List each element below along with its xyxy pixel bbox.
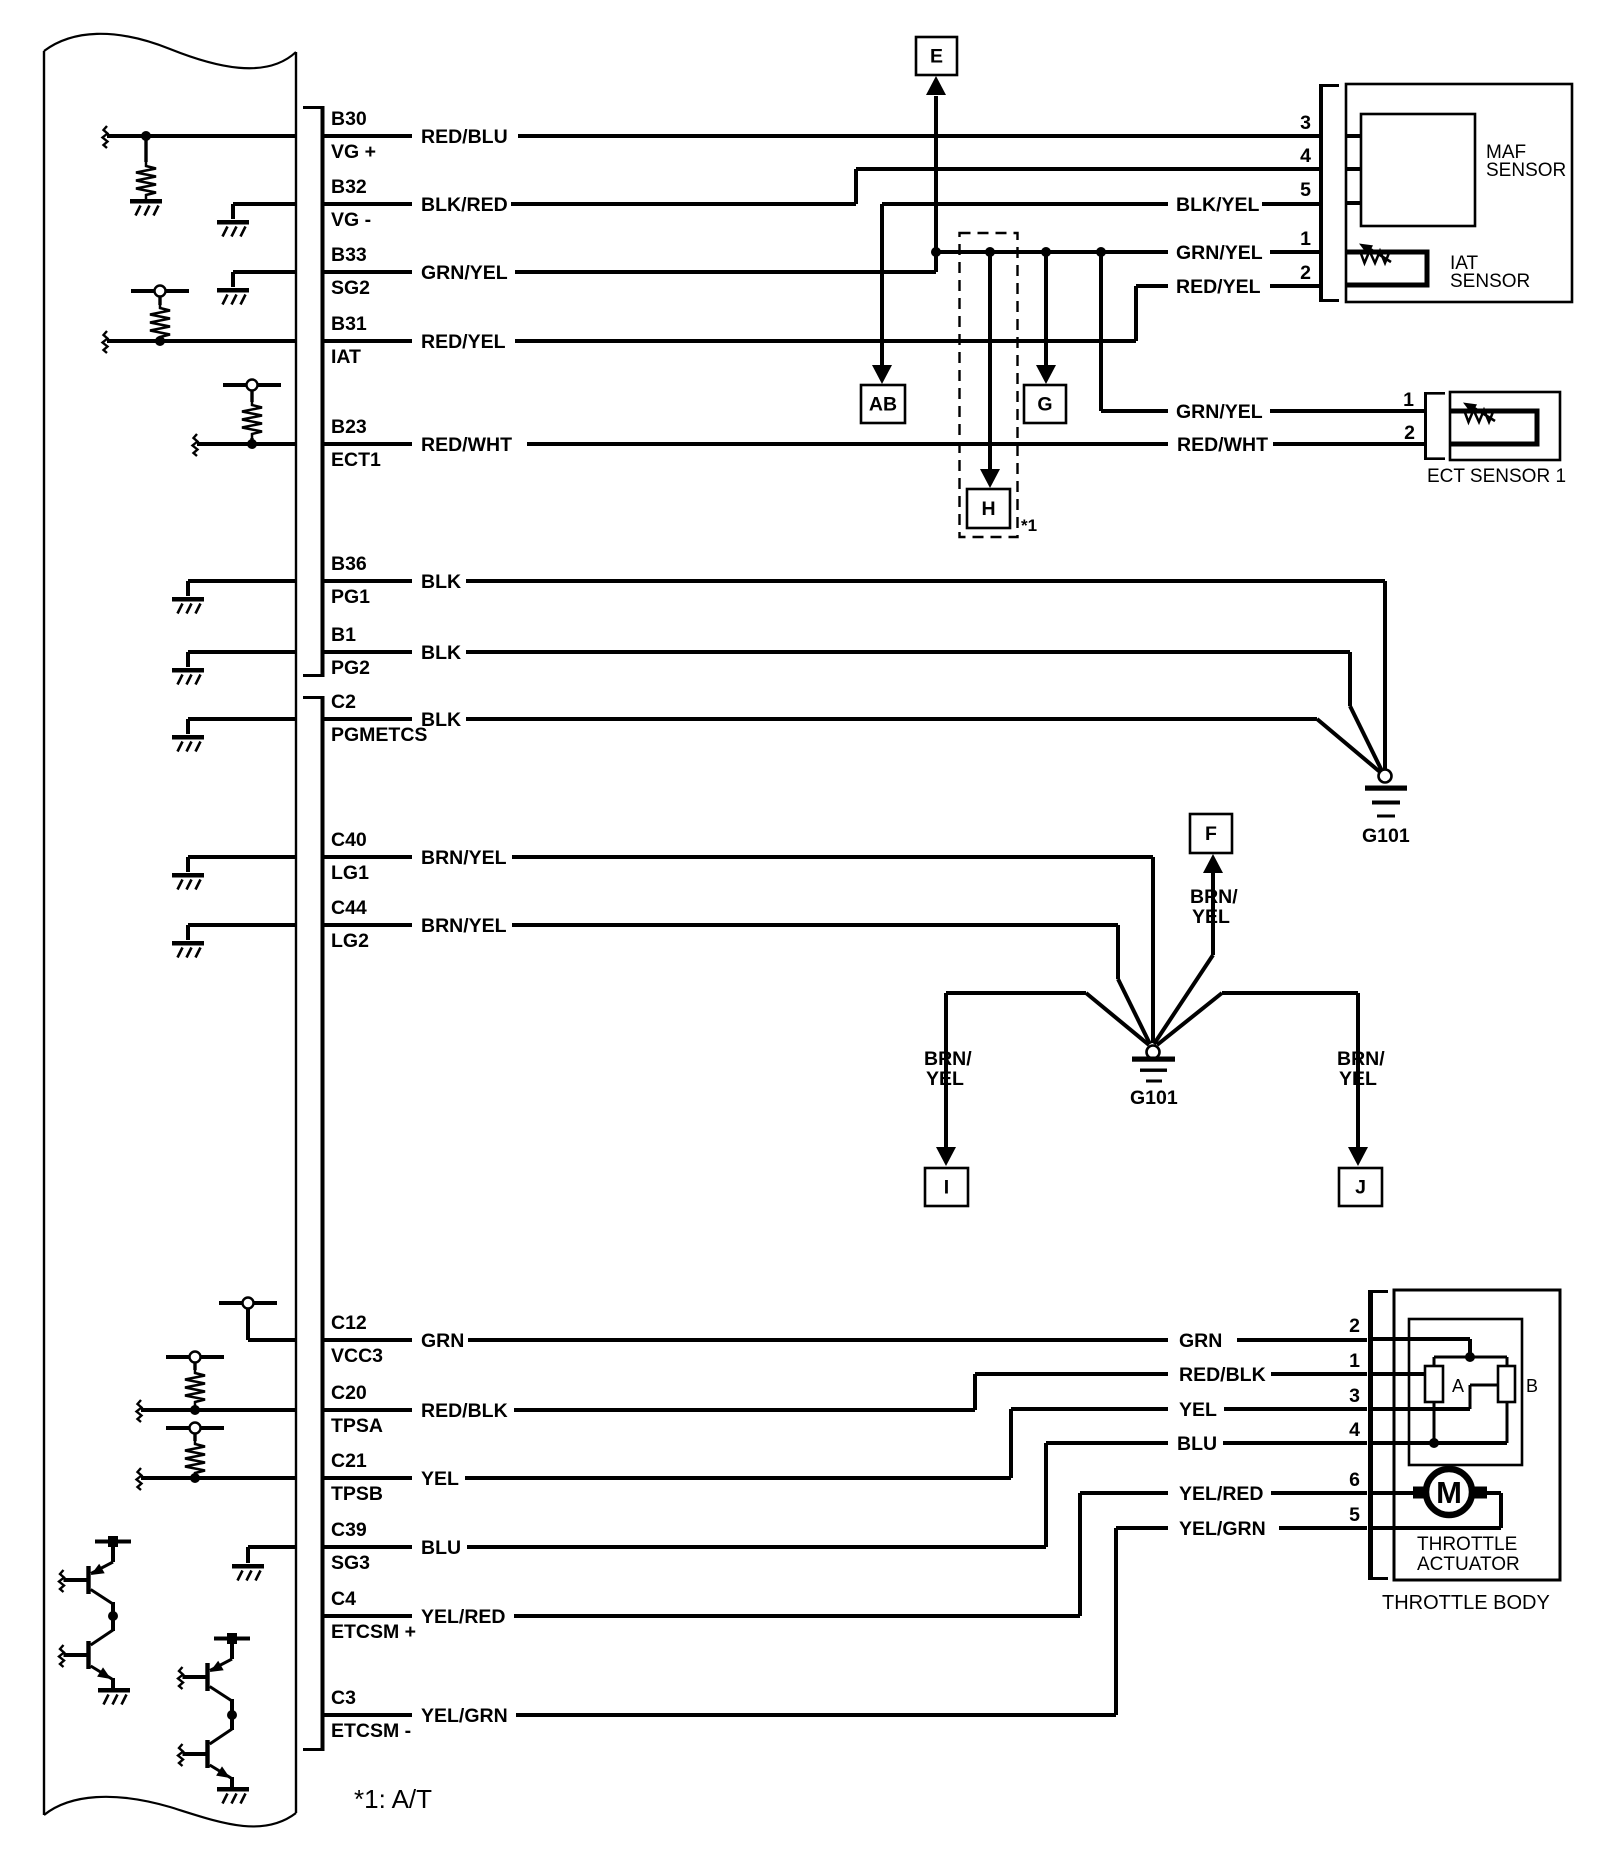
svg-text:B32: B32 [331,176,367,198]
wire GRN/YEL from pin B33 [324,270,412,274]
svg-text:BRN/: BRN/ [1337,1048,1385,1070]
svg-text:SENSOR: SENSOR [1486,160,1566,181]
wire LG1 internal to ground [188,855,296,859]
wire ECU torn bottom edge [44,1797,296,1827]
wire RED/YEL riser to MAF pin 2 [1134,286,1138,341]
ground VG- [217,220,249,237]
node MAF connector bracket [1319,84,1323,302]
wire branch to connector J [1222,991,1358,995]
svg-text:1: 1 [1403,389,1414,411]
svg-text:RED/YEL: RED/YEL [1176,276,1261,298]
svg-text:RED/BLK: RED/BLK [1179,1364,1266,1386]
wire throttle pin 4 internal [1373,1441,1507,1445]
svg-text:TPSB: TPSB [331,1483,383,1505]
wire MAF pin 4 stub [1346,167,1361,171]
node ECT connector bracket [1424,392,1427,460]
wire BLK/RED from pin B32 [324,202,412,206]
svg-text:*1: *1 [1021,516,1037,535]
wire BLK from pin C2 [324,717,412,721]
svg-text:RED/WHT: RED/WHT [421,434,512,456]
power rail VCC3 [219,1298,277,1309]
wire BLK from pin B1 [324,650,412,654]
svg-text:C39: C39 [331,1519,367,1541]
node ECU connector bar C (pins C2-C3) [321,696,325,1751]
ground SG3 [232,1564,264,1581]
svg-text:VCC3: VCC3 [331,1345,383,1367]
ground PGMETCS [172,735,204,752]
wire BLU from pin C39 [324,1545,412,1549]
wire PG2 internal to ground [188,650,296,654]
power rail ETCSM-1 [214,1637,250,1641]
svg-text:GRN/YEL: GRN/YEL [421,262,508,284]
node junction bus/E [931,247,941,257]
svg-text:M: M [1436,1475,1462,1510]
node junction B30 [141,131,151,141]
svg-text:RED/WHT: RED/WHT [1177,434,1268,456]
node A/T dashed option box [960,233,1018,537]
svg-text:B36: B36 [331,553,367,575]
svg-text:3: 3 [1349,1385,1360,1407]
node junction supply bus [1465,1352,1475,1362]
wire LG2 internal to ground [188,923,296,927]
wire RED/BLK from pin C20 [324,1408,412,1412]
wire GRN/YEL branch to ECT sensor pin 1 [1099,252,1103,411]
svg-text:BRN/: BRN/ [924,1048,972,1070]
svg-text:BRN/: BRN/ [1190,886,1238,908]
wire BLK from pin B36 [324,579,412,583]
power rail for B23 pull-up [223,380,281,391]
svg-text:YEL: YEL [1179,1399,1217,1421]
node junction bus/H [985,247,995,257]
svg-text:RED/BLU: RED/BLU [421,126,508,148]
wire PG1 internal to ground [188,579,296,583]
wire GRN from pin C12 [324,1338,412,1342]
svg-text:PG1: PG1 [331,586,370,608]
node junction B31 [155,336,165,346]
svg-text:F: F [1205,823,1217,845]
svg-text:LG2: LG2 [331,930,369,952]
connector J [1348,1147,1368,1166]
wire B23 internal [197,442,296,446]
svg-text:BRN/YEL: BRN/YEL [421,847,507,869]
resistor pull-up on C20/TPSA [193,1362,196,1370]
power rail ETCSM+1 [95,1540,131,1544]
resistor pull-up on B23/ECT1 [250,390,253,402]
wire throttle pin 5 internal [1373,1526,1501,1530]
thermistor ECT sensor element [1450,411,1537,444]
svg-text:C44: C44 [331,897,367,919]
thermistor IAT sensor element [1346,252,1427,285]
resistor A (TPS sensor A) [1425,1366,1443,1402]
svg-text:GRN/YEL: GRN/YEL [1176,401,1263,423]
svg-text:2: 2 [1404,422,1415,444]
svg-text:G101: G101 [1130,1087,1178,1109]
node MAF sensing element box [1361,114,1475,226]
wire GRN/YEL SG2 bus [936,250,1168,254]
svg-text:B31: B31 [331,313,367,335]
svg-text:*1: A/T: *1: A/T [354,1784,432,1814]
node THROTTLE BODY box [1394,1290,1560,1580]
svg-text:ETCSM -: ETCSM - [331,1720,411,1742]
svg-text:C3: C3 [331,1687,356,1709]
svg-text:YEL/GRN: YEL/GRN [421,1705,508,1727]
wire B33 internal to ground [233,270,296,274]
svg-text:YEL: YEL [1339,1068,1377,1090]
node junction ETCSM- output [227,1710,237,1720]
wire throttle pin 1 internal [1373,1372,1425,1376]
svg-text:3: 3 [1300,112,1311,134]
wire C21 internal [141,1476,296,1480]
power rail for C21 pull-up [166,1423,224,1434]
wire B33 riser to bus [934,252,938,272]
connector AB [872,365,892,384]
svg-text:BLK: BLK [421,571,461,593]
svg-text:G: G [1037,394,1052,416]
svg-text:BLK/RED: BLK/RED [421,194,508,216]
svg-text:GRN: GRN [1179,1330,1222,1352]
wire PGMETCS BLK to G101 [1317,719,1380,772]
svg-text:VG +: VG + [331,141,376,163]
svg-text:IAT: IAT [331,346,361,368]
svg-text:BRN/YEL: BRN/YEL [421,915,507,937]
svg-text:B1: B1 [331,624,356,646]
wire BRN/YEL from pin C44 [324,923,412,927]
connector G [1036,365,1056,384]
svg-text:SENSOR: SENSOR [1450,271,1530,292]
resistor pull-up on B31/IAT [158,296,161,305]
ground SG2 [217,288,249,305]
svg-text:BLU: BLU [421,1537,461,1559]
resistor pull-up on C21/TPSB [193,1433,196,1441]
power rail for C20 pull-up [166,1352,224,1363]
wire B32 internal to ground [233,202,296,206]
wire throttle pin 3 internal [1373,1407,1470,1411]
svg-text:YEL: YEL [421,1468,459,1490]
wire PG2 BLK to G101 [1348,652,1352,706]
connector I [936,1147,956,1166]
svg-text:C12: C12 [331,1312,367,1334]
wire riser to connector E [934,96,938,252]
wire RED/BLK riser [973,1374,977,1410]
svg-text:VG -: VG - [331,209,371,231]
node ECT SENSOR 1 box [1450,392,1560,460]
node junction TPS A output [1429,1438,1439,1448]
wire YEL from pin C21 [324,1476,412,1480]
node junction C21 [190,1473,200,1483]
node throttle connector bracket [1368,1290,1373,1580]
wire B30 internal [107,134,296,138]
svg-text:YEL: YEL [926,1068,964,1090]
transistor Q-ETCSM+-low (NPN) [111,1616,115,1631]
ground ETCSM- emitter [217,1787,249,1804]
wire branch to connector F [1211,872,1215,955]
svg-text:C21: C21 [331,1450,367,1472]
svg-text:PG2: PG2 [331,657,370,679]
svg-text:SG2: SG2 [331,277,370,299]
svg-text:RED/BLK: RED/BLK [421,1400,508,1422]
node THROTTLE ACTUATOR box [1409,1319,1522,1465]
wire YEL/GRN riser [1114,1528,1118,1715]
resistor pull-down on B30/VG+ [144,136,147,162]
node junction B23 [247,439,257,449]
wire C39 internal to ground [248,1545,296,1549]
ground PG1 [172,597,204,614]
svg-text:B23: B23 [331,416,367,438]
transistor Q-ETCSM+-high (PNP) [111,1542,115,1563]
svg-text:B33: B33 [331,244,367,266]
svg-text:C20: C20 [331,1382,367,1404]
wire ECU torn top edge [44,34,296,68]
svg-text:YEL/GRN: YEL/GRN [1179,1518,1266,1540]
wire YEL/RED riser [1078,1493,1082,1616]
connector H [980,469,1000,488]
svg-text:ACTUATOR: ACTUATOR [1417,1554,1520,1575]
wire PG1 BLK down to G101 [1383,581,1387,769]
svg-text:5: 5 [1349,1504,1360,1526]
svg-text:6: 6 [1349,1469,1360,1491]
svg-text:1: 1 [1300,228,1311,250]
svg-text:SG3: SG3 [331,1552,370,1574]
resistor B (TPS sensor B) [1498,1366,1515,1402]
svg-text:E: E [930,46,943,68]
node junction bus/G [1041,247,1051,257]
svg-text:ETCSM +: ETCSM + [331,1621,416,1643]
wire C20 internal [141,1408,296,1412]
svg-text:2: 2 [1349,1315,1360,1337]
wire B31 internal [107,339,296,343]
svg-text:BLK: BLK [421,709,461,731]
wire throttle pin 2 internal [1373,1337,1470,1341]
svg-text:THROTTLE: THROTTLE [1417,1534,1517,1555]
wire branch to connector I [946,991,1086,995]
node junction C20 [190,1405,200,1415]
svg-text:YEL: YEL [1192,906,1230,928]
wire riser to connector H [988,252,992,470]
svg-text:BLK/YEL: BLK/YEL [1176,194,1260,216]
svg-text:B30: B30 [331,108,367,130]
ground G101 (logic grounds) [1147,1046,1160,1059]
svg-text:BLU: BLU [1177,1433,1217,1455]
wire RED/YEL from pin B31 [324,339,412,343]
node MAF SENSOR box [1346,84,1572,302]
wire sensor supply bus [1434,1356,1507,1359]
node junction bus/ECT branch [1096,247,1106,257]
wire LG1 BRN/YEL down to G101 [1151,857,1155,1043]
wire YEL riser [1009,1409,1013,1478]
motor M throttle actuator [1413,1487,1427,1499]
wire RED/BLU from pin B30 [324,134,412,138]
wire BLK/RED riser to MAF pin 4 [854,169,858,204]
svg-text:THROTTLE BODY: THROTTLE BODY [1382,1592,1550,1614]
power rail for B31 pull-up [131,286,189,297]
svg-text:C2: C2 [331,691,356,713]
wire BLU riser [1044,1443,1048,1547]
svg-text:YEL/RED: YEL/RED [1179,1483,1264,1505]
svg-text:YEL/RED: YEL/RED [421,1606,506,1628]
svg-text:C40: C40 [331,829,367,851]
svg-text:1: 1 [1349,1350,1360,1372]
svg-text:G101: G101 [1362,825,1410,847]
svg-text:J: J [1355,1177,1366,1199]
wire throttle pin 6 internal [1373,1491,1416,1495]
wire C12 internal to power [248,1338,296,1342]
svg-text:5: 5 [1300,179,1311,201]
wire LG2 BRN/YEL to G101 [1116,925,1120,979]
ground PG2 [172,668,204,685]
connector E [926,76,946,95]
connector F [1203,854,1223,873]
svg-text:PGMETCS: PGMETCS [331,724,427,746]
svg-text:BLK: BLK [421,642,461,664]
node ECU connector bar B (pins B30-B1) [321,106,325,677]
svg-text:A: A [1452,1376,1464,1396]
ground LG1 [172,873,204,890]
svg-text:RED/YEL: RED/YEL [421,331,506,353]
svg-text:C4: C4 [331,1588,356,1610]
wire YEL/GRN from pin C3 [324,1713,412,1717]
ground B30 pull-down [130,199,162,216]
svg-text:GRN: GRN [421,1330,464,1352]
svg-text:ECT SENSOR 1: ECT SENSOR 1 [1427,466,1566,487]
ground G101 (ECU grounds) [1379,770,1392,783]
wire BRN/YEL from pin C40 [324,855,412,859]
wire ECU right edge [295,52,297,1813]
svg-text:4: 4 [1300,145,1311,167]
svg-text:AB: AB [869,394,897,416]
svg-text:2: 2 [1300,262,1311,284]
svg-text:4: 4 [1349,1419,1360,1441]
svg-text:ECT1: ECT1 [331,449,381,471]
transistor Q-ETCSM--low (NPN) [230,1715,234,1730]
svg-text:H: H [981,498,995,520]
wire BLK/YEL to MAF pin 5 and connector AB [882,202,1168,206]
node junction ETCSM+ output [108,1611,118,1621]
wire MAF pin 5 stub [1346,201,1361,205]
svg-text:I: I [944,1177,949,1199]
svg-text:GRN/YEL: GRN/YEL [1176,242,1263,264]
svg-text:B: B [1526,1376,1538,1396]
svg-text:LG1: LG1 [331,862,369,884]
wire MAF pin 3 stub [1346,134,1361,138]
wire ECU left edge [43,51,45,1815]
ground ETCSM+ emitter [98,1688,130,1705]
svg-text:TPSA: TPSA [331,1415,383,1437]
wire RED/WHT from pin B23 [324,442,412,446]
wire riser to connector G [1044,252,1048,366]
ground LG2 [172,941,204,958]
transistor Q-ETCSM--high (PNP) [230,1639,234,1660]
wire YEL/RED from pin C4 [324,1614,412,1618]
wire PGMETCS internal to ground [188,717,296,721]
